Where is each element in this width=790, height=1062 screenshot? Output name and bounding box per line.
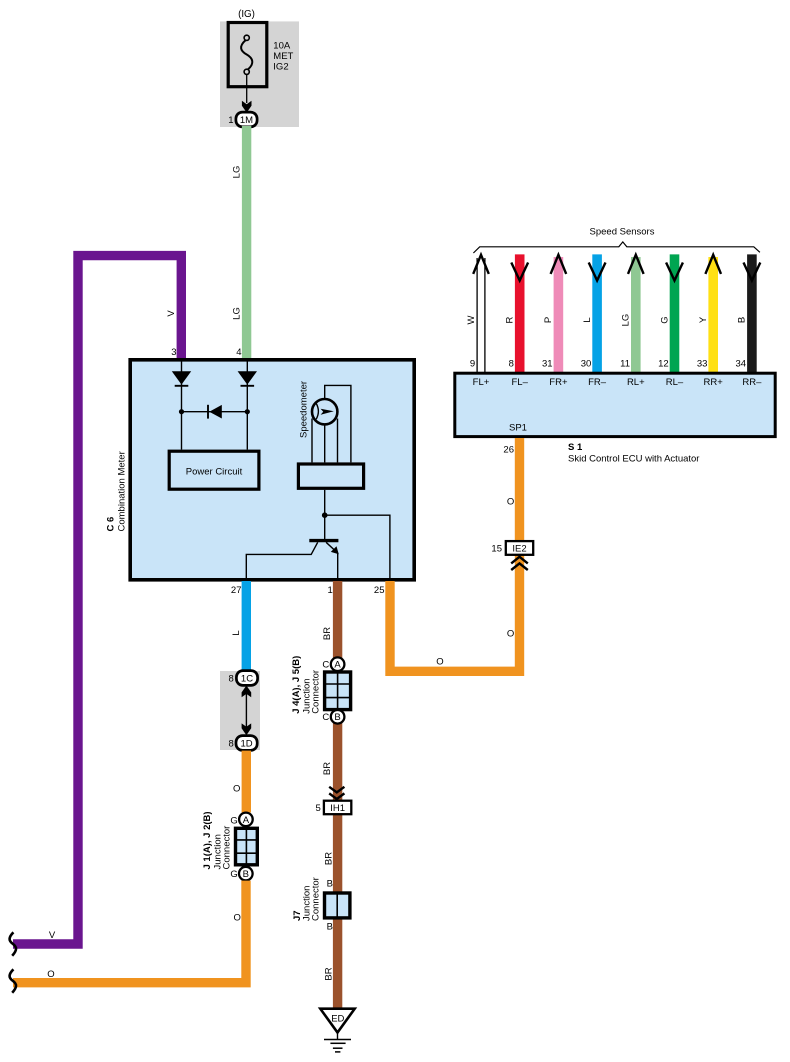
wire O from 1D to junction connector xyxy=(242,751,251,813)
svg-text:LG: LG xyxy=(621,314,632,327)
svg-text:B: B xyxy=(334,712,340,723)
wire pin4 internal xyxy=(246,361,248,450)
connector block shaded area 1C/1D xyxy=(220,671,260,750)
transistor Q1 xyxy=(246,515,338,579)
svg-text:V: V xyxy=(166,310,177,317)
svg-text:FR–: FR– xyxy=(588,377,607,388)
svg-text:C: C xyxy=(322,660,329,671)
svg-text:1C: 1C xyxy=(241,673,253,684)
fuse value label 10A MET IG2 xyxy=(273,41,293,73)
svg-text:G: G xyxy=(230,869,237,880)
diode D3 pointing left xyxy=(207,405,209,419)
continuation mark purple wire xyxy=(10,932,16,955)
fuse 10A MET IG2 box xyxy=(228,23,267,87)
svg-text:J 4(A), J 5(B): J 4(A), J 5(B) xyxy=(291,656,302,714)
svg-text:Power Circuit: Power Circuit xyxy=(186,466,243,477)
wire O from SP1 to meter pin 25 xyxy=(390,438,520,671)
wire node to pin 25 xyxy=(325,515,390,579)
svg-text:J 1(A), J 2(B): J 1(A), J 2(B) xyxy=(202,811,213,869)
svg-text:MET: MET xyxy=(273,51,293,62)
svg-text:S 1: S 1 xyxy=(568,442,583,453)
connector 1C xyxy=(236,671,257,686)
svg-text:8: 8 xyxy=(229,739,234,750)
svg-text:12: 12 xyxy=(658,358,669,369)
svg-text:9: 9 xyxy=(470,358,475,369)
svg-text:ED: ED xyxy=(331,1014,344,1025)
svg-text:1: 1 xyxy=(328,585,333,596)
fuse element symbol xyxy=(241,35,252,74)
connector IE2 xyxy=(506,541,533,555)
svg-text:Speedometer: Speedometer xyxy=(299,381,310,438)
skid control ECU S1 box xyxy=(455,373,775,436)
svg-text:26: 26 xyxy=(503,445,514,456)
speed sensor wire L (FR–) xyxy=(581,254,606,372)
connector 1M xyxy=(236,112,257,127)
speedometer wires xyxy=(312,385,351,462)
svg-text:V: V xyxy=(49,930,56,941)
wire coil box to node xyxy=(324,490,326,515)
svg-text:Speed Sensors: Speed Sensors xyxy=(590,227,655,238)
svg-text:Skid Control ECU with Actuator: Skid Control ECU with Actuator xyxy=(568,454,699,465)
svg-text:R: R xyxy=(505,316,516,323)
svg-text:IG2: IG2 xyxy=(273,62,288,73)
svg-text:O: O xyxy=(507,497,514,508)
node dot right xyxy=(245,409,250,414)
svg-text:8: 8 xyxy=(509,358,514,369)
diode D2 xyxy=(238,371,257,384)
svg-text:RR–: RR– xyxy=(742,377,762,388)
svg-text:FR+: FR+ xyxy=(549,377,568,388)
connector circle B (J5) xyxy=(331,710,345,724)
ground ED xyxy=(320,1009,354,1052)
svg-text:O: O xyxy=(507,629,514,640)
speed sensor wire LG (RL+) xyxy=(620,255,643,373)
svg-text:5: 5 xyxy=(316,803,321,814)
speed sensor wire W (FL+) xyxy=(466,255,489,373)
svg-text:4: 4 xyxy=(236,347,241,358)
svg-text:LG: LG xyxy=(232,166,243,179)
wire V purple from meter pin 3 to page connector xyxy=(13,256,181,944)
svg-text:O: O xyxy=(47,969,54,980)
junction connector J4/J5 box xyxy=(325,672,351,710)
svg-text:RL–: RL– xyxy=(666,377,684,388)
svg-text:A: A xyxy=(243,815,250,826)
wire O from B to bottom left page connector xyxy=(13,881,246,983)
speed sensor wire Y (RR+) xyxy=(697,255,721,373)
svg-text:G: G xyxy=(659,316,670,323)
speedometer gauge circle xyxy=(312,399,337,424)
svg-text:11: 11 xyxy=(620,358,630,369)
wire BR from pin 1 to ground xyxy=(333,581,342,1009)
power circuit box xyxy=(169,451,259,489)
arrow chevrons into IH1 xyxy=(329,787,344,793)
svg-text:BR: BR xyxy=(323,852,334,865)
connector 1D xyxy=(236,736,257,751)
svg-text:B: B xyxy=(327,922,333,933)
svg-text:B: B xyxy=(243,869,249,880)
svg-text:BR: BR xyxy=(322,627,333,640)
arrow chevrons out of IE2 xyxy=(511,557,528,564)
diode D1 xyxy=(172,371,191,384)
svg-text:O: O xyxy=(436,657,443,668)
svg-text:33: 33 xyxy=(697,358,708,369)
svg-text:30: 30 xyxy=(581,358,592,369)
speed sensors bracket xyxy=(473,242,760,253)
wire LG fuse to combination meter pin 4 xyxy=(242,126,251,358)
wire junction between diodes xyxy=(182,411,248,413)
svg-text:P: P xyxy=(543,317,554,323)
svg-text:O: O xyxy=(233,784,240,795)
svg-text:IE2: IE2 xyxy=(512,543,526,554)
speed sensor wire P (FR+) xyxy=(542,255,566,373)
speed sensor wire B (RR–) xyxy=(736,254,761,372)
svg-text:FL+: FL+ xyxy=(473,377,490,388)
svg-text:FL–: FL– xyxy=(512,377,529,388)
svg-text:A: A xyxy=(334,660,341,671)
speedometer needle xyxy=(316,403,318,419)
svg-text:10A: 10A xyxy=(273,41,291,52)
svg-text:C 6: C 6 xyxy=(106,517,117,532)
speed sensor wire R (FL–) xyxy=(505,254,529,372)
svg-text:Connector: Connector xyxy=(221,826,232,870)
continuation mark orange wire xyxy=(10,969,16,992)
svg-text:B: B xyxy=(327,879,333,890)
svg-text:L: L xyxy=(231,630,242,635)
wire L blue from pin 27 xyxy=(242,581,251,676)
node dot left xyxy=(179,409,184,414)
svg-text:BR: BR xyxy=(323,967,334,980)
speed sensor wire G (RL–) xyxy=(658,254,683,372)
connector circle A (J4) xyxy=(331,657,345,671)
speedometer coil box xyxy=(298,464,363,488)
junction connector J7 box xyxy=(325,893,350,918)
svg-text:SP1: SP1 xyxy=(509,422,527,433)
connector circle B (J2) xyxy=(239,867,253,881)
connector circle A (J1) xyxy=(239,813,253,827)
svg-text:(IG): (IG) xyxy=(238,9,255,20)
connector IH1 xyxy=(324,801,351,815)
svg-text:Combination Meter: Combination Meter xyxy=(117,451,128,531)
svg-text:1D: 1D xyxy=(241,738,253,749)
svg-text:8: 8 xyxy=(229,674,234,685)
svg-text:3: 3 xyxy=(171,347,176,358)
svg-text:L: L xyxy=(582,317,593,322)
node dot xyxy=(322,512,328,518)
svg-text:Y: Y xyxy=(698,316,709,323)
wire pin3 internal xyxy=(181,361,183,450)
svg-text:25: 25 xyxy=(374,585,385,596)
svg-text:1: 1 xyxy=(228,115,233,126)
svg-text:BR: BR xyxy=(322,762,333,775)
svg-text:15: 15 xyxy=(491,544,502,555)
svg-text:LG: LG xyxy=(232,307,243,320)
svg-text:O: O xyxy=(234,913,241,924)
svg-text:B: B xyxy=(737,317,748,323)
double arrow between 1C and 1D xyxy=(242,686,252,736)
svg-text:W: W xyxy=(466,315,477,324)
svg-text:IH1: IH1 xyxy=(330,803,345,814)
svg-text:Connector: Connector xyxy=(310,877,321,921)
svg-text:RL+: RL+ xyxy=(627,377,645,388)
svg-text:RR+: RR+ xyxy=(704,377,724,388)
svg-text:27: 27 xyxy=(231,585,242,596)
svg-text:31: 31 xyxy=(542,358,553,369)
junction connector J1/J2 box xyxy=(236,828,258,865)
wire fuse to connector 1M xyxy=(246,74,248,103)
svg-text:34: 34 xyxy=(736,358,747,369)
fuse block shaded area xyxy=(220,21,299,127)
svg-text:Connector: Connector xyxy=(310,670,321,714)
svg-text:C: C xyxy=(322,712,329,723)
combination meter C6 box xyxy=(130,360,414,580)
svg-text:1M: 1M xyxy=(240,115,253,126)
svg-text:G: G xyxy=(230,815,237,826)
